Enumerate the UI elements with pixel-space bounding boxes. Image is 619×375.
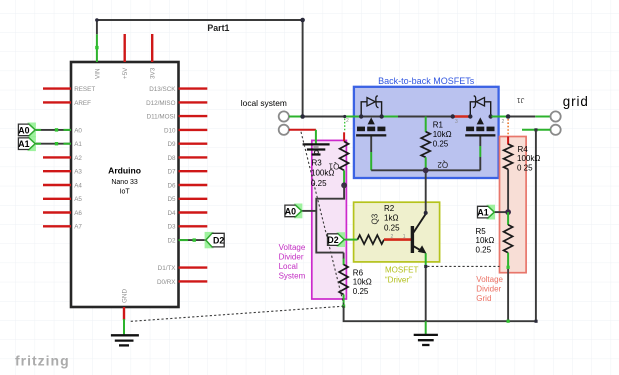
node A1 (divider) [494, 211, 508, 213]
svg-text:0.25: 0.25 [353, 287, 369, 296]
svg-text:grid: grid [563, 94, 589, 109]
pin D0/RX stub [179, 280, 208, 282]
ratsnest to R4 (orange dotted) [507, 119, 509, 136]
transistor Q2a (left MOSFET) [361, 102, 367, 117]
wire R2 to Q3 base (red) [384, 238, 411, 241]
resistor R1 [425, 117, 427, 133]
resistor R4 [507, 137, 509, 145]
wire A1 pin [35, 143, 71, 145]
svg-text:A5: A5 [74, 196, 82, 203]
wire local1 to bus [289, 116, 303, 118]
svg-text:R5: R5 [476, 227, 487, 236]
svg-text:3: 3 [455, 119, 458, 125]
pin 3V3 stub [151, 34, 153, 62]
ratsnest to R3 (green dotted) [344, 119, 346, 132]
svg-text:A0: A0 [285, 206, 296, 216]
node D2 (divider) [344, 239, 357, 241]
wire VIN vertical (green) [96, 34, 98, 62]
pin D4 stub [179, 211, 208, 213]
svg-text:R1: R1 [433, 120, 444, 129]
node D2 (at Arduino) [205, 232, 214, 248]
wire D2 pin [179, 239, 207, 241]
group box: Voltage Divider Grid [500, 137, 527, 273]
pin D13/SCK stub [179, 87, 208, 89]
svg-text:D3: D3 [167, 224, 176, 231]
junction A1/R4/R5 [505, 209, 511, 215]
svg-text:R2: R2 [384, 204, 395, 213]
svg-text:A1: A1 [477, 208, 488, 218]
svg-text:Q2: Q2 [437, 160, 448, 169]
svg-text:10kΩ: 10kΩ [476, 236, 495, 245]
svg-text:Part1: Part1 [207, 23, 229, 33]
svg-text:D13/SCK: D13/SCK [149, 86, 176, 93]
wire grid pin2 [522, 129, 550, 131]
pin A4 stub [43, 184, 71, 186]
transistor Q3 [411, 226, 414, 253]
ratsnest driver to R5 [427, 265, 499, 267]
svg-text:D2: D2 [167, 238, 176, 245]
pin D5 stub [179, 198, 208, 200]
junction top bend [300, 18, 305, 23]
svg-text:R3: R3 [312, 158, 323, 167]
wire left gate down [370, 137, 372, 153]
wire gates bottom bar [371, 169, 480, 171]
svg-text:D2: D2 [213, 236, 224, 246]
pin +5V stub [123, 34, 125, 62]
svg-text:A0: A0 [74, 127, 82, 134]
resistor R5 [507, 212, 509, 225]
svg-text:A4: A4 [74, 182, 82, 189]
svg-text:RESET: RESET [74, 86, 95, 93]
svg-text:D4: D4 [167, 210, 176, 217]
wire local2 (red) [289, 129, 316, 131]
pin A5 stub [43, 198, 71, 200]
pin D3 stub [179, 225, 208, 227]
group box: MOSFET Driver [354, 202, 440, 262]
junction R3 bottom [341, 182, 347, 188]
group box: Back-to-back MOSFETs [354, 87, 499, 178]
pin A2 stub [43, 156, 71, 158]
svg-text:R6: R6 [353, 268, 364, 277]
connector local system pin2 [279, 125, 289, 135]
pin D12/MISO stub [179, 101, 208, 103]
transistor Q2b (right MOSFET) [470, 102, 476, 117]
wire Q2 bar to Q3 collector [425, 170, 427, 213]
svg-text:R4: R4 [518, 145, 529, 154]
pin D8 stub [179, 156, 208, 158]
ground (driver) [414, 335, 438, 345]
group box: Voltage Divider Local System [312, 140, 347, 299]
svg-text:Nano 33: Nano 33 [111, 179, 138, 186]
resistor R6 [343, 253, 345, 259]
svg-text:“Driver”: “Driver” [385, 276, 412, 285]
junction R5 at bus [507, 320, 510, 323]
node A1 (left label) [28, 136, 36, 151]
wire Q3 emitter down [425, 253, 427, 266]
wire R3 to A0 riser [316, 185, 344, 252]
wire GND pin [123, 307, 125, 320]
pin D9 stub [179, 142, 208, 144]
svg-text:AREF: AREF [74, 100, 91, 107]
svg-text:D9: D9 [167, 141, 176, 148]
svg-text:D11/MOSI: D11/MOSI [147, 114, 176, 121]
wire grid return down [535, 130, 537, 321]
svg-text:Q1: Q1 [328, 161, 339, 170]
svg-text:D1/TX: D1/TX [158, 265, 177, 272]
svg-text:D12/MISO: D12/MISO [146, 100, 175, 107]
ratsnest local2 to R6 bottom [301, 132, 344, 306]
svg-text:D0/RX: D0/RX [157, 279, 176, 286]
svg-text:GND: GND [121, 289, 128, 303]
ground (Arduino) [111, 335, 139, 345]
ground (local system) [303, 144, 330, 154]
pin A3 stub [43, 170, 71, 172]
svg-text:3V3: 3V3 [150, 67, 157, 79]
svg-text:A3: A3 [74, 169, 82, 176]
svg-text:0.25: 0.25 [476, 245, 492, 254]
svg-text:10kΩ: 10kΩ [433, 130, 452, 139]
svg-text:Q3: Q3 [371, 213, 380, 224]
wire R5 bottom to bus [507, 269, 509, 321]
wire driver emitter to ground [425, 321, 427, 334]
pin AREF stub [43, 101, 71, 103]
resistor R3 [343, 132, 345, 141]
svg-text:D6: D6 [167, 182, 176, 189]
pin RESET stub [43, 87, 71, 89]
svg-text:A6: A6 [74, 210, 82, 217]
svg-text:0.25: 0.25 [433, 139, 449, 148]
svg-text:D10: D10 [164, 127, 176, 134]
svg-text:MOSFET: MOSFET [385, 265, 418, 274]
pin D10 stub [179, 129, 208, 131]
pin D1/TX stub [179, 266, 208, 268]
connector grid pin1 [551, 111, 561, 121]
svg-text:0 25: 0 25 [517, 163, 533, 172]
svg-text:2: 2 [346, 118, 349, 124]
svg-text:fritzing: fritzing [15, 353, 70, 369]
svg-text:D7: D7 [167, 169, 176, 176]
svg-text:1kΩ: 1kΩ [384, 214, 398, 223]
svg-text:10kΩ: 10kΩ [353, 278, 372, 287]
svg-text:A7: A7 [74, 224, 82, 231]
wire bottom bus [344, 306, 536, 321]
pin D11/MOSI stub [179, 115, 208, 117]
svg-text:A1: A1 [18, 139, 29, 149]
wire top horizontal Part1 [97, 20, 303, 117]
svg-text:D8: D8 [167, 155, 176, 162]
pin A6 stub [43, 211, 71, 213]
wire MOSFET out to grid [492, 116, 509, 118]
junction local1 [300, 114, 305, 119]
connector grid pin2 [551, 125, 561, 135]
pin D6 stub [179, 184, 208, 186]
svg-text:Back-to-back MOSFETs: Back-to-back MOSFETs [378, 76, 475, 86]
svg-text:A2: A2 [74, 155, 82, 162]
svg-text:VIN: VIN [94, 68, 101, 79]
pin A7 stub [43, 225, 71, 227]
resistor R2 [358, 235, 385, 244]
svg-text:local system: local system [241, 98, 287, 108]
connector local system pin1 [279, 111, 289, 121]
wire A0 pin [35, 129, 71, 131]
pin D7 stub [179, 170, 208, 172]
ratsnest R6 bottom to Arduino GND [130, 306, 344, 321]
node A0 (divider) [302, 210, 317, 212]
svg-text:0.25: 0.25 [384, 223, 400, 232]
svg-text:Arduino: Arduino [108, 166, 141, 176]
op board U: Arduino Nano 33 IoT body [71, 62, 179, 307]
svg-text:A1: A1 [74, 141, 82, 148]
svg-text:2: 2 [502, 119, 505, 125]
svg-text:A0: A0 [18, 125, 29, 135]
svg-text:J1: J1 [517, 96, 525, 105]
svg-text:100kΩ: 100kΩ [517, 154, 540, 163]
node A0 (left label) [28, 123, 36, 138]
wire right gate down [479, 137, 481, 147]
wire across back-to-back MOSFETs [361, 116, 381, 118]
svg-text:IoT: IoT [120, 188, 131, 195]
svg-text:D5: D5 [167, 196, 176, 203]
svg-text:+5V: +5V [122, 67, 129, 79]
